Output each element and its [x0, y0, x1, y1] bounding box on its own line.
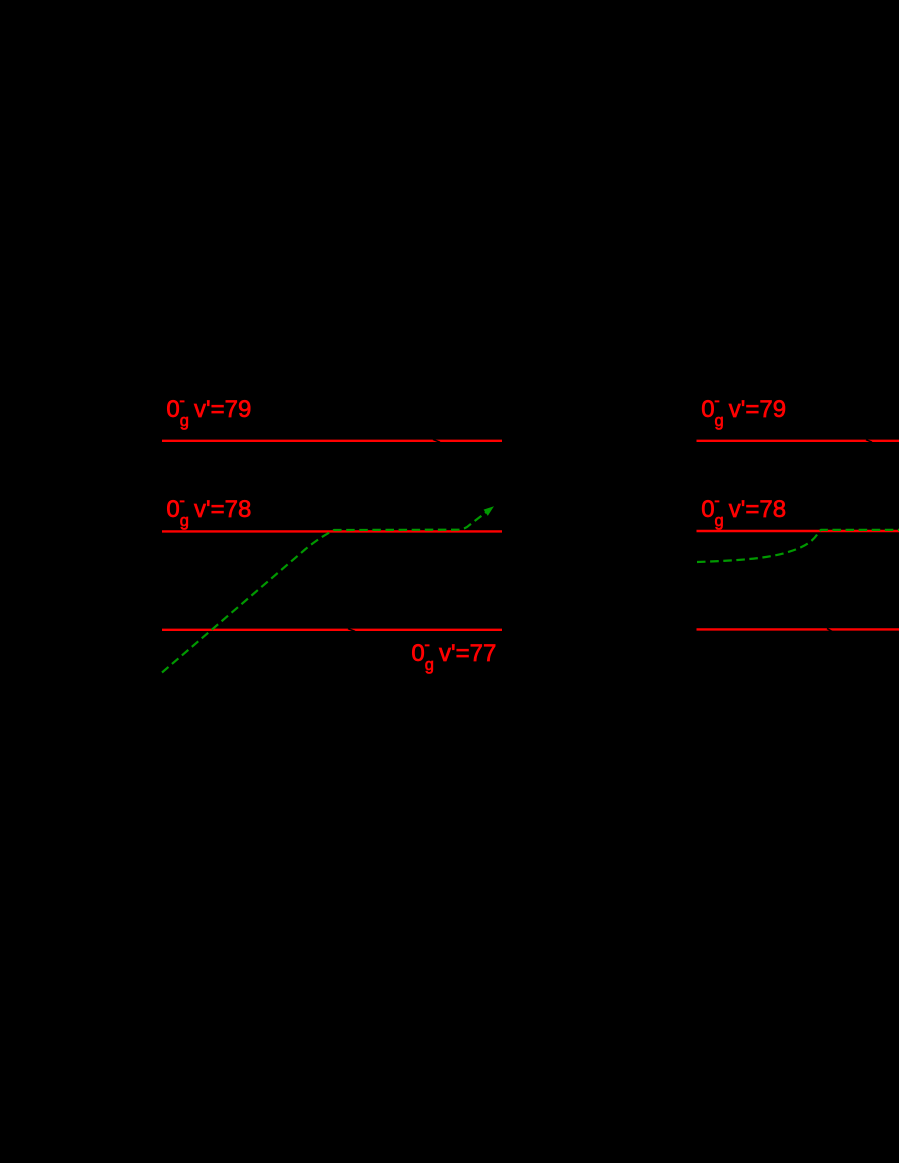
green arrowhead left [484, 506, 494, 516]
svg-text:g: g [425, 656, 434, 674]
label left v'=79 [166, 392, 251, 430]
svg-text:0: 0 [166, 496, 179, 523]
svg-text:0: 0 [411, 640, 424, 667]
svg-text:-: - [424, 636, 430, 654]
svg-text:0: 0 [166, 396, 179, 423]
svg-text:g: g [180, 412, 189, 430]
svg-text:-: - [179, 492, 185, 510]
svg-text:-: - [179, 392, 185, 410]
svg-text:-: - [714, 392, 720, 410]
svg-text:v'=79: v'=79 [729, 396, 786, 423]
level line left v'=77 [162, 629, 502, 631]
notch on left line v'=77 [348, 629, 355, 632]
green dashed transfer path left [162, 512, 486, 672]
level line right v'=78 [697, 530, 899, 532]
label right v'=78 [701, 492, 786, 530]
level line left v'=78 [162, 530, 502, 532]
svg-text:g: g [180, 512, 189, 530]
svg-text:0: 0 [701, 496, 714, 523]
svg-text:-: - [714, 492, 720, 510]
notch on right line v'=79 [866, 440, 872, 443]
green dashed approach path right [697, 530, 899, 562]
level line right v'=79 [697, 440, 899, 442]
svg-text:g: g [715, 512, 724, 530]
svg-text:v'=79: v'=79 [194, 396, 251, 423]
svg-text:v'=78: v'=78 [729, 496, 786, 523]
svg-text:g: g [715, 412, 724, 430]
label right v'=79 [701, 392, 786, 430]
svg-text:v'=78: v'=78 [194, 496, 251, 523]
level line left v'=79 [162, 440, 502, 442]
label left v'=77 [411, 636, 496, 674]
notch on left line v'=79 [433, 439, 440, 442]
svg-text:0: 0 [701, 396, 714, 423]
label left v'=78 [166, 492, 251, 530]
notch on right line v'=77 [827, 628, 832, 631]
svg-text:v'=77: v'=77 [439, 640, 496, 667]
level line right v'=77 [697, 628, 899, 630]
